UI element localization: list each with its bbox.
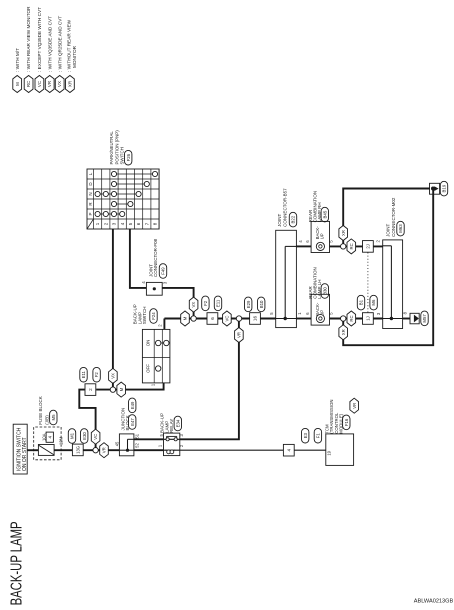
svg-text:6: 6	[210, 317, 215, 320]
condition hexagon M on mid bus	[181, 311, 190, 326]
svg-text:ABLWA0213GB: ABLWA0213GB	[414, 598, 454, 604]
svg-text:CONNECTOR-B57: CONNECTOR-B57	[282, 188, 287, 227]
connector E11 badge above box 6	[214, 296, 221, 311]
back-up lamp switch label F24	[133, 304, 158, 324]
connector M1 badge above box 13G	[68, 429, 75, 444]
connector E29 badge above box 16	[245, 297, 252, 312]
footer drawing code	[414, 598, 454, 604]
harness pass-through box 2 on switch wire	[85, 384, 96, 396]
svg-text:CONNECTOR-F08: CONNECTOR-F08	[153, 238, 158, 277]
svg-text:XR: XR	[68, 81, 73, 87]
svg-text:B45: B45	[322, 210, 327, 218]
svg-text:4: 4	[47, 435, 52, 438]
pin 2 of M02	[375, 239, 380, 242]
svg-text:CONNECTOR-M02: CONNECTOR-M02	[391, 197, 396, 237]
svg-text:F1: F1	[315, 433, 320, 439]
legend condition badge M	[13, 48, 22, 93]
junction of PNP terminal3 wire with switch wire	[110, 387, 115, 392]
wire junction RH up to monitor arrow via XR	[343, 189, 430, 244]
svg-text:M: M	[119, 387, 124, 391]
svg-text:F49: F49	[161, 267, 166, 275]
wire lamp RH to joint connector M02 pin 2	[330, 245, 383, 247]
svg-text:(J/B): (J/B)	[44, 415, 49, 425]
wire fuse to junction block pin 45	[54, 449, 119, 451]
svg-text:VR: VR	[102, 447, 107, 453]
pin 5 of lamp LH	[329, 312, 334, 315]
svg-text:4: 4	[286, 448, 291, 451]
TCM pin 19	[327, 450, 332, 455]
svg-text:E11: E11	[216, 299, 221, 307]
svg-text:E29: E29	[246, 300, 251, 308]
pin 6 of lamp RH	[305, 240, 310, 243]
svg-text:: WITH REAR VIEW MONITOR: : WITH REAR VIEW MONITOR	[26, 6, 31, 72]
harness pass-through box 16 on mid bus	[250, 313, 261, 325]
svg-text:RC: RC	[349, 243, 354, 249]
harness pass-through box 1J	[363, 313, 374, 325]
connector F2 badge above box 2	[93, 367, 100, 382]
TCM box	[326, 434, 354, 466]
joint connector-M02 label M63	[386, 197, 405, 237]
junction on lamp LH wire	[341, 316, 346, 321]
junction on lamp RH wire	[341, 244, 346, 249]
svg-text:45: 45	[115, 441, 120, 446]
svg-text:M5: M5	[51, 414, 56, 421]
svg-text:2: 2	[88, 388, 93, 391]
fuse block J/B label M5	[38, 396, 57, 425]
joint connector B57 box with internal bus	[276, 230, 297, 327]
svg-text:F2: F2	[203, 300, 208, 306]
svg-text:E47: E47	[130, 418, 135, 426]
connector F1 badge above box 4	[314, 428, 321, 443]
wire M02 pin8 to connector M57	[403, 318, 410, 320]
pin 1 of back-up lamp switch	[150, 383, 155, 386]
fuse block dashed boundary	[34, 427, 61, 460]
condition hexagon VC on switch branch	[91, 429, 100, 444]
legend condition badge VX	[55, 16, 64, 93]
joint connector M02 box with internal bus	[383, 240, 403, 329]
svg-text:16: 16	[253, 316, 258, 322]
ignition switch ON OR START box	[13, 424, 28, 474]
svg-text:VR: VR	[352, 403, 357, 409]
pin 2 of back-up lamp switch	[158, 324, 163, 327]
svg-text:B19: B19	[442, 184, 447, 192]
rear combination lamp LH label B30	[308, 267, 329, 298]
wire mid bus from back-up lamp switch to joint connector B57	[164, 319, 275, 330]
condition hexagon XR on lamp LH monitor wire	[339, 325, 348, 340]
svg-text:F24: F24	[151, 312, 156, 320]
to rear view monitor arrow B19	[430, 181, 448, 196]
pin 1 of B57	[297, 312, 302, 315]
rear combination lamp RH label B45	[308, 191, 329, 222]
svg-text:SWITCH: SWITCH	[119, 147, 124, 164]
svg-text:MONITOR: MONITOR	[72, 45, 77, 68]
svg-text:12M: 12M	[59, 436, 64, 445]
wire relay pin3 to mid bus junction via VR	[180, 321, 239, 439]
relay pin 1	[158, 444, 163, 447]
svg-text:: WITH QR25DE AND CVT: : WITH QR25DE AND CVT	[57, 16, 62, 72]
wire back-up lamp switch pin1 to fuse branch via M and box 2	[79, 383, 163, 448]
svg-text:SWITCH: SWITCH	[142, 306, 147, 324]
svg-text:RELAY: RELAY	[169, 419, 174, 433]
wire B57 pin1 to rear combination lamp LH	[296, 318, 311, 320]
svg-text:M1: M1	[70, 432, 75, 439]
condition hexagon VX on PNP wire	[189, 297, 198, 312]
fuse block terminal 12M	[59, 436, 64, 445]
TCM label F16 VR	[324, 398, 358, 434]
svg-text:VR: VR	[47, 81, 52, 87]
wire F08 pin3 to mid bus junction via VX	[162, 288, 193, 319]
pin 3 of M02	[376, 312, 381, 315]
junction block pin 51	[135, 433, 140, 438]
svg-text:M: M	[183, 316, 188, 320]
back-up lamp relay label E34	[160, 413, 182, 433]
wire junction block 51 to relay 5	[134, 438, 164, 440]
svg-text:E11: E11	[81, 370, 86, 378]
svg-text:UP: UP	[320, 233, 325, 239]
legend condition badge VC	[35, 7, 44, 93]
junction of relay branch with mid bus	[236, 316, 241, 321]
relay pin 2	[179, 444, 184, 447]
svg-text:: WITH VQ35DE AND CVT: : WITH VQ35DE AND CVT	[47, 16, 52, 72]
pin 4 of F08	[141, 281, 146, 284]
svg-text:OFF: OFF	[145, 364, 150, 373]
relay pin 3	[179, 433, 184, 436]
svg-text:VX: VX	[111, 373, 116, 379]
connector F2 badge above box 6	[202, 296, 209, 311]
svg-text:B10: B10	[259, 300, 264, 308]
svg-text:VX: VX	[191, 302, 196, 308]
svg-text:1J: 1J	[366, 316, 371, 320]
legend condition badge VR	[45, 16, 54, 93]
junction block label E47 E49	[120, 398, 135, 430]
svg-text:51: 51	[135, 433, 140, 438]
wire ignition switch to fuse	[27, 449, 38, 451]
svg-text:JOINT: JOINT	[386, 224, 391, 237]
harness pass-through box 6 on mid bus	[207, 313, 218, 325]
svg-text:RC: RC	[349, 315, 354, 321]
PNP switch contact table	[87, 169, 159, 229]
condition hexagon VX on PNP terminal3 wire	[109, 368, 118, 383]
junction block pin 52	[135, 443, 140, 448]
connector M57 with to-arrow	[410, 311, 428, 326]
joint connector-B57 label B22	[277, 188, 297, 227]
harness pass-through box 4 on TCM wire	[283, 444, 294, 456]
svg-text:: WITH M/T: : WITH M/T	[15, 48, 20, 72]
svg-text:13G: 13G	[75, 446, 80, 454]
svg-text:ON OR START: ON OR START	[22, 437, 28, 471]
svg-text:N: N	[88, 192, 93, 195]
joint connector F08 box	[146, 282, 162, 295]
svg-text:M57: M57	[422, 314, 427, 323]
svg-text:B30: B30	[322, 287, 327, 295]
pin 6 of lamp LH	[305, 312, 310, 315]
svg-text:2J: 2J	[366, 244, 371, 248]
svg-text:F16: F16	[344, 418, 349, 426]
diagram title BACK-UP LAMP	[9, 521, 26, 605]
condition hexagon M on switch wire	[117, 382, 126, 397]
junction of PNP-VX wire with mid bus	[191, 316, 196, 321]
svg-text:19: 19	[327, 450, 332, 455]
fuse 4 10A	[38, 432, 54, 455]
connector E11 badge above box 2	[80, 367, 87, 382]
wire PNP terminal 5 to joint connector F08	[130, 229, 147, 288]
svg-text:XR: XR	[341, 230, 346, 236]
junction block pin 45	[115, 441, 120, 446]
back-up lamp switch contact box	[142, 329, 170, 383]
svg-text:B22: B22	[291, 215, 296, 223]
svg-text:VC: VC	[93, 434, 98, 440]
junction of switch branch with fuse wire	[93, 448, 98, 453]
svg-text:M: M	[15, 82, 20, 86]
svg-text:F26: F26	[126, 153, 131, 161]
connector M6 badge above box 1J	[370, 295, 377, 310]
pin 5 of lamp RH	[329, 240, 334, 243]
connector E3 badge above box 4	[302, 428, 309, 443]
svg-text:FUSE BLOCK: FUSE BLOCK	[38, 396, 43, 425]
connector B10 badge above box 16	[258, 297, 265, 312]
harness pass-through box 13G	[72, 444, 83, 456]
svg-text:VX: VX	[57, 81, 62, 87]
condition hexagon RC on lamp RH wire	[347, 239, 356, 254]
wire PNP terminal 3 to junction near VX/M	[112, 229, 114, 387]
svg-text:VC: VC	[225, 316, 230, 322]
condition hexagon VC on mid bus	[223, 311, 232, 326]
rear combination lamp RH box with back-up bulb	[311, 221, 329, 252]
svg-text:M63: M63	[398, 224, 403, 233]
rear combination lamp LH box with back-up bulb	[311, 294, 329, 325]
svg-text:: EXCEPT VQ35DE WITH CVT: : EXCEPT VQ35DE WITH CVT	[37, 7, 42, 72]
back-up lamp relay box	[164, 433, 180, 456]
svg-text:VR: VR	[237, 332, 242, 338]
svg-text:10A: 10A	[41, 433, 46, 441]
pin 5 of joint connector B57	[269, 312, 274, 315]
legend condition badge XR	[66, 19, 78, 92]
svg-text:E34: E34	[175, 419, 180, 427]
dotted link between 2J and 1J	[367, 253, 369, 314]
condition hexagon XR on lamp RH monitor wire	[339, 226, 348, 241]
wire relay pin2 to TCM pin19	[180, 449, 326, 451]
svg-text:P: P	[88, 212, 93, 215]
joint connector-F08 label F49	[148, 238, 166, 278]
svg-text:: WITHOUT REAR VIEW: : WITHOUT REAR VIEW	[67, 19, 72, 72]
pin 8 of M02	[402, 311, 407, 314]
svg-text:XR: XR	[341, 329, 346, 335]
svg-text:VC: VC	[37, 81, 42, 87]
svg-text:52: 52	[135, 443, 140, 448]
svg-text:E30: E30	[82, 432, 87, 440]
condition hexagon VR on fuse wire	[100, 443, 109, 458]
svg-text:ON: ON	[145, 340, 150, 347]
pin 4 of B57	[298, 240, 303, 243]
junction block box with internal branch	[119, 434, 133, 456]
svg-text:BACK-UP LAMP: BACK-UP LAMP	[9, 521, 26, 605]
wire lamp LH to joint connector M02 pin 3	[330, 318, 383, 320]
condition hexagon RC on lamp LH wire	[347, 311, 356, 326]
connector E30 badge above box 13G	[81, 429, 88, 444]
svg-text:F2: F2	[94, 372, 99, 378]
svg-text:JOINT: JOINT	[277, 214, 282, 227]
relay pin 5	[159, 433, 164, 436]
condition hexagon VR on relay branch	[235, 328, 244, 343]
svg-text:M6: M6	[371, 299, 376, 306]
svg-text:B1: B1	[359, 299, 364, 305]
connector B1 badge above box 1J	[357, 295, 364, 310]
svg-text:E3: E3	[303, 432, 308, 438]
harness pass-through box 2J	[363, 241, 374, 253]
wire B57 pin4 to rear combination lamp RH	[296, 245, 311, 247]
svg-text:RC: RC	[26, 81, 31, 87]
wire junction block 52 to relay 1	[134, 449, 164, 451]
wire junction LH down and right to monitor arrow via XR	[343, 189, 433, 346]
svg-text:E49: E49	[130, 401, 135, 409]
legend condition badge RC	[24, 6, 33, 93]
park/neutral position (PNP) switch F26 label	[109, 130, 132, 165]
pin 3 of F08	[162, 281, 167, 284]
